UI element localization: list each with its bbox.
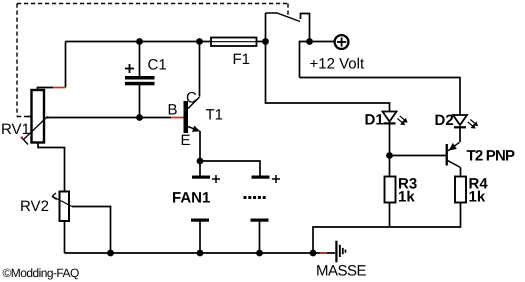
svg-text:B: B [168, 102, 178, 119]
capacitor C1 plus sign [125, 64, 134, 73]
wire bottom net [65, 252, 314, 254]
wire RV1 dashed tick [28, 116, 37, 118]
junction FAN pin3 / bottom net [197, 250, 204, 257]
FAN1 connector pin3 bar [191, 219, 209, 222]
FAN1 more-pins dots [244, 196, 266, 199]
wire FAN pin4 lead [259, 222, 261, 254]
dashed link to switch [287, 4, 289, 18]
wire T1 collector riser [199, 42, 201, 97]
wire RV1 top stub [38, 88, 54, 91]
LED D2 light arrows [468, 119, 477, 128]
fuse F1 [211, 38, 257, 47]
junction C1 top node [136, 38, 143, 45]
transistor T1 emitter [188, 127, 200, 132]
FAN1 connector pin1 bar [192, 176, 210, 179]
FAN1 connector pin2 bar [252, 176, 270, 179]
wire base net [46, 117, 171, 119]
resistor R3 body [385, 177, 396, 203]
svg-text:C: C [186, 89, 197, 106]
transistor T2 collector [448, 161, 461, 168]
wire T1 emitter lead [199, 131, 201, 161]
wire C1 top lead [139, 42, 141, 77]
red wire segment near RV1 top [53, 88, 327, 254]
wire D2 feed [300, 78, 461, 116]
LED D1 triangle [383, 112, 397, 122]
junction FAN pin4 / bottom net [256, 250, 263, 257]
junction MASSE node [310, 250, 317, 257]
wire switch right contact [301, 14, 310, 42]
svg-text:C1: C1 [148, 57, 167, 74]
potentiometer RV2 body [60, 192, 70, 222]
svg-text:T1: T1 [206, 107, 224, 124]
svg-text:1k: 1k [398, 189, 415, 206]
transistor T1 collector [188, 97, 200, 109]
dashed enclosure top edge [17, 4, 288, 117]
svg-text:T2 PNP: T2 PNP [467, 148, 516, 165]
potentiometer RV2 wiper arrow [52, 193, 72, 207]
transistor T2 emitter arrow [449, 143, 457, 151]
wire R4 top lead [460, 168, 462, 177]
switch S1 blade [266, 13, 301, 22]
wire D2 cathode lead [459, 128, 461, 142]
wire switch left pole [265, 13, 267, 42]
wire R3 bottom lead [389, 203, 391, 228]
wire R3 top lead [389, 156, 391, 177]
potentiometer RV1 wiper arrow [22, 117, 48, 145]
svg-text:RV2: RV2 [20, 198, 49, 215]
dashed enclosure left edge [16, 4, 18, 117]
junction C1 bottom / base node [136, 114, 143, 121]
svg-text:D2: D2 [435, 112, 454, 129]
svg-text:MASSE: MASSE [316, 263, 367, 280]
FAN1 connector pin1 plus [212, 175, 280, 183]
wire fuse to switch node [257, 41, 266, 43]
svg-text:1k: 1k [469, 189, 486, 206]
wire FAN pin1 lead [199, 161, 201, 176]
junction RV2 wiper / bottom net [107, 250, 114, 257]
red wire segment at MASSE [320, 252, 327, 254]
wire D1 feed [266, 42, 390, 112]
dashed link to RV1 [17, 116, 30, 118]
wire FAN feed [200, 161, 260, 176]
red wire segment at T1 base [171, 117, 184, 119]
transistor T2 base bar [446, 144, 448, 166]
red dot at RV1 bottom [38, 141, 40, 143]
junction T1 emitter / FAN node [197, 158, 204, 165]
svg-text:+12 Volt: +12 Volt [310, 55, 365, 72]
junction switch/+12V node [306, 38, 313, 45]
junction D1 cathode / R3 / T2 base node [386, 152, 393, 159]
svg-text:RV1: RV1 [1, 121, 30, 138]
LED D1 cathode bar [384, 122, 396, 124]
FAN1 connector pin2 plus [272, 178, 280, 180]
FAN1 connector pin4 bar [251, 219, 269, 222]
wire RV2 bottom lead [64, 221, 66, 253]
ground symbol MASSE [335, 241, 346, 263]
resistor R4 body [455, 177, 466, 203]
red dot at RV1 arrow [21, 137, 24, 139]
junction T1 collector node [196, 38, 203, 45]
+12V terminal circle [335, 35, 349, 49]
wire ground return [313, 203, 461, 254]
potentiometer RV1 body [32, 90, 45, 143]
LED D2 cathode bar [454, 126, 466, 128]
junction fuse/switch node [262, 38, 269, 45]
transistor T1 base bar [184, 101, 189, 133]
LED D2 triangle [453, 115, 467, 125]
svg-text:E: E [181, 132, 191, 149]
wire T2 base [390, 155, 446, 157]
wire top net [28, 13, 461, 253]
wire FAN pin3 lead [199, 222, 201, 254]
wire +12 feed [300, 42, 335, 78]
wire RV1 top riser [65, 42, 67, 88]
wire MASSE link [313, 252, 335, 254]
svg-text:FAN1: FAN1 [172, 190, 210, 207]
wire RV1 bottom to RV2 [38, 143, 65, 192]
svg-text:F1: F1 [233, 51, 251, 68]
svg-text:©Modding-FAQ: ©Modding-FAQ [3, 266, 79, 280]
transistor T2 emitter [448, 142, 460, 151]
LED D1 light arrows [397, 116, 406, 125]
capacitor C1 plates [125, 76, 155, 80]
wire D1 cathode lead [389, 125, 391, 156]
potentiometer RV1 wiper wire stub [46, 117, 49, 119]
transistor T1 emitter arrow [192, 126, 200, 132]
svg-text:D1: D1 [365, 112, 384, 129]
wire C1 bottom lead [139, 85, 141, 118]
wire RV2 wiper out [72, 207, 111, 254]
